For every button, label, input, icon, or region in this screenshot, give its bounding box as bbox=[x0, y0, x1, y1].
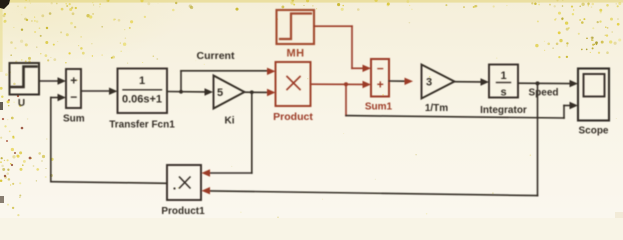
svg-text:3: 3 bbox=[426, 77, 432, 89]
svg-text:+: + bbox=[70, 74, 77, 88]
svg-text:+: + bbox=[377, 78, 384, 92]
svg-text:1/Tm: 1/Tm bbox=[425, 103, 448, 114]
svg-text:−: − bbox=[70, 90, 77, 104]
svg-text:MH: MH bbox=[286, 48, 304, 60]
svg-text:−: − bbox=[377, 61, 384, 75]
svg-text:0.06s+1: 0.06s+1 bbox=[122, 94, 162, 106]
svg-text:Transfer Fcn1: Transfer Fcn1 bbox=[109, 120, 175, 131]
svg-text:Product1: Product1 bbox=[161, 206, 205, 217]
svg-text:1: 1 bbox=[139, 75, 145, 87]
svg-text:Current: Current bbox=[197, 50, 235, 62]
svg-text:Sum: Sum bbox=[63, 114, 85, 125]
svg-text:5: 5 bbox=[217, 87, 223, 99]
svg-text:Product: Product bbox=[273, 111, 313, 123]
svg-text:Ki: Ki bbox=[225, 116, 235, 127]
svg-text:Speed: Speed bbox=[528, 88, 558, 99]
svg-text:Sum1: Sum1 bbox=[365, 102, 393, 113]
svg-text:s: s bbox=[500, 87, 506, 99]
svg-text:Integrator: Integrator bbox=[480, 105, 527, 116]
svg-text:Scope: Scope bbox=[578, 126, 608, 137]
svg-text:1: 1 bbox=[500, 70, 506, 82]
svg-text:U: U bbox=[18, 98, 25, 109]
